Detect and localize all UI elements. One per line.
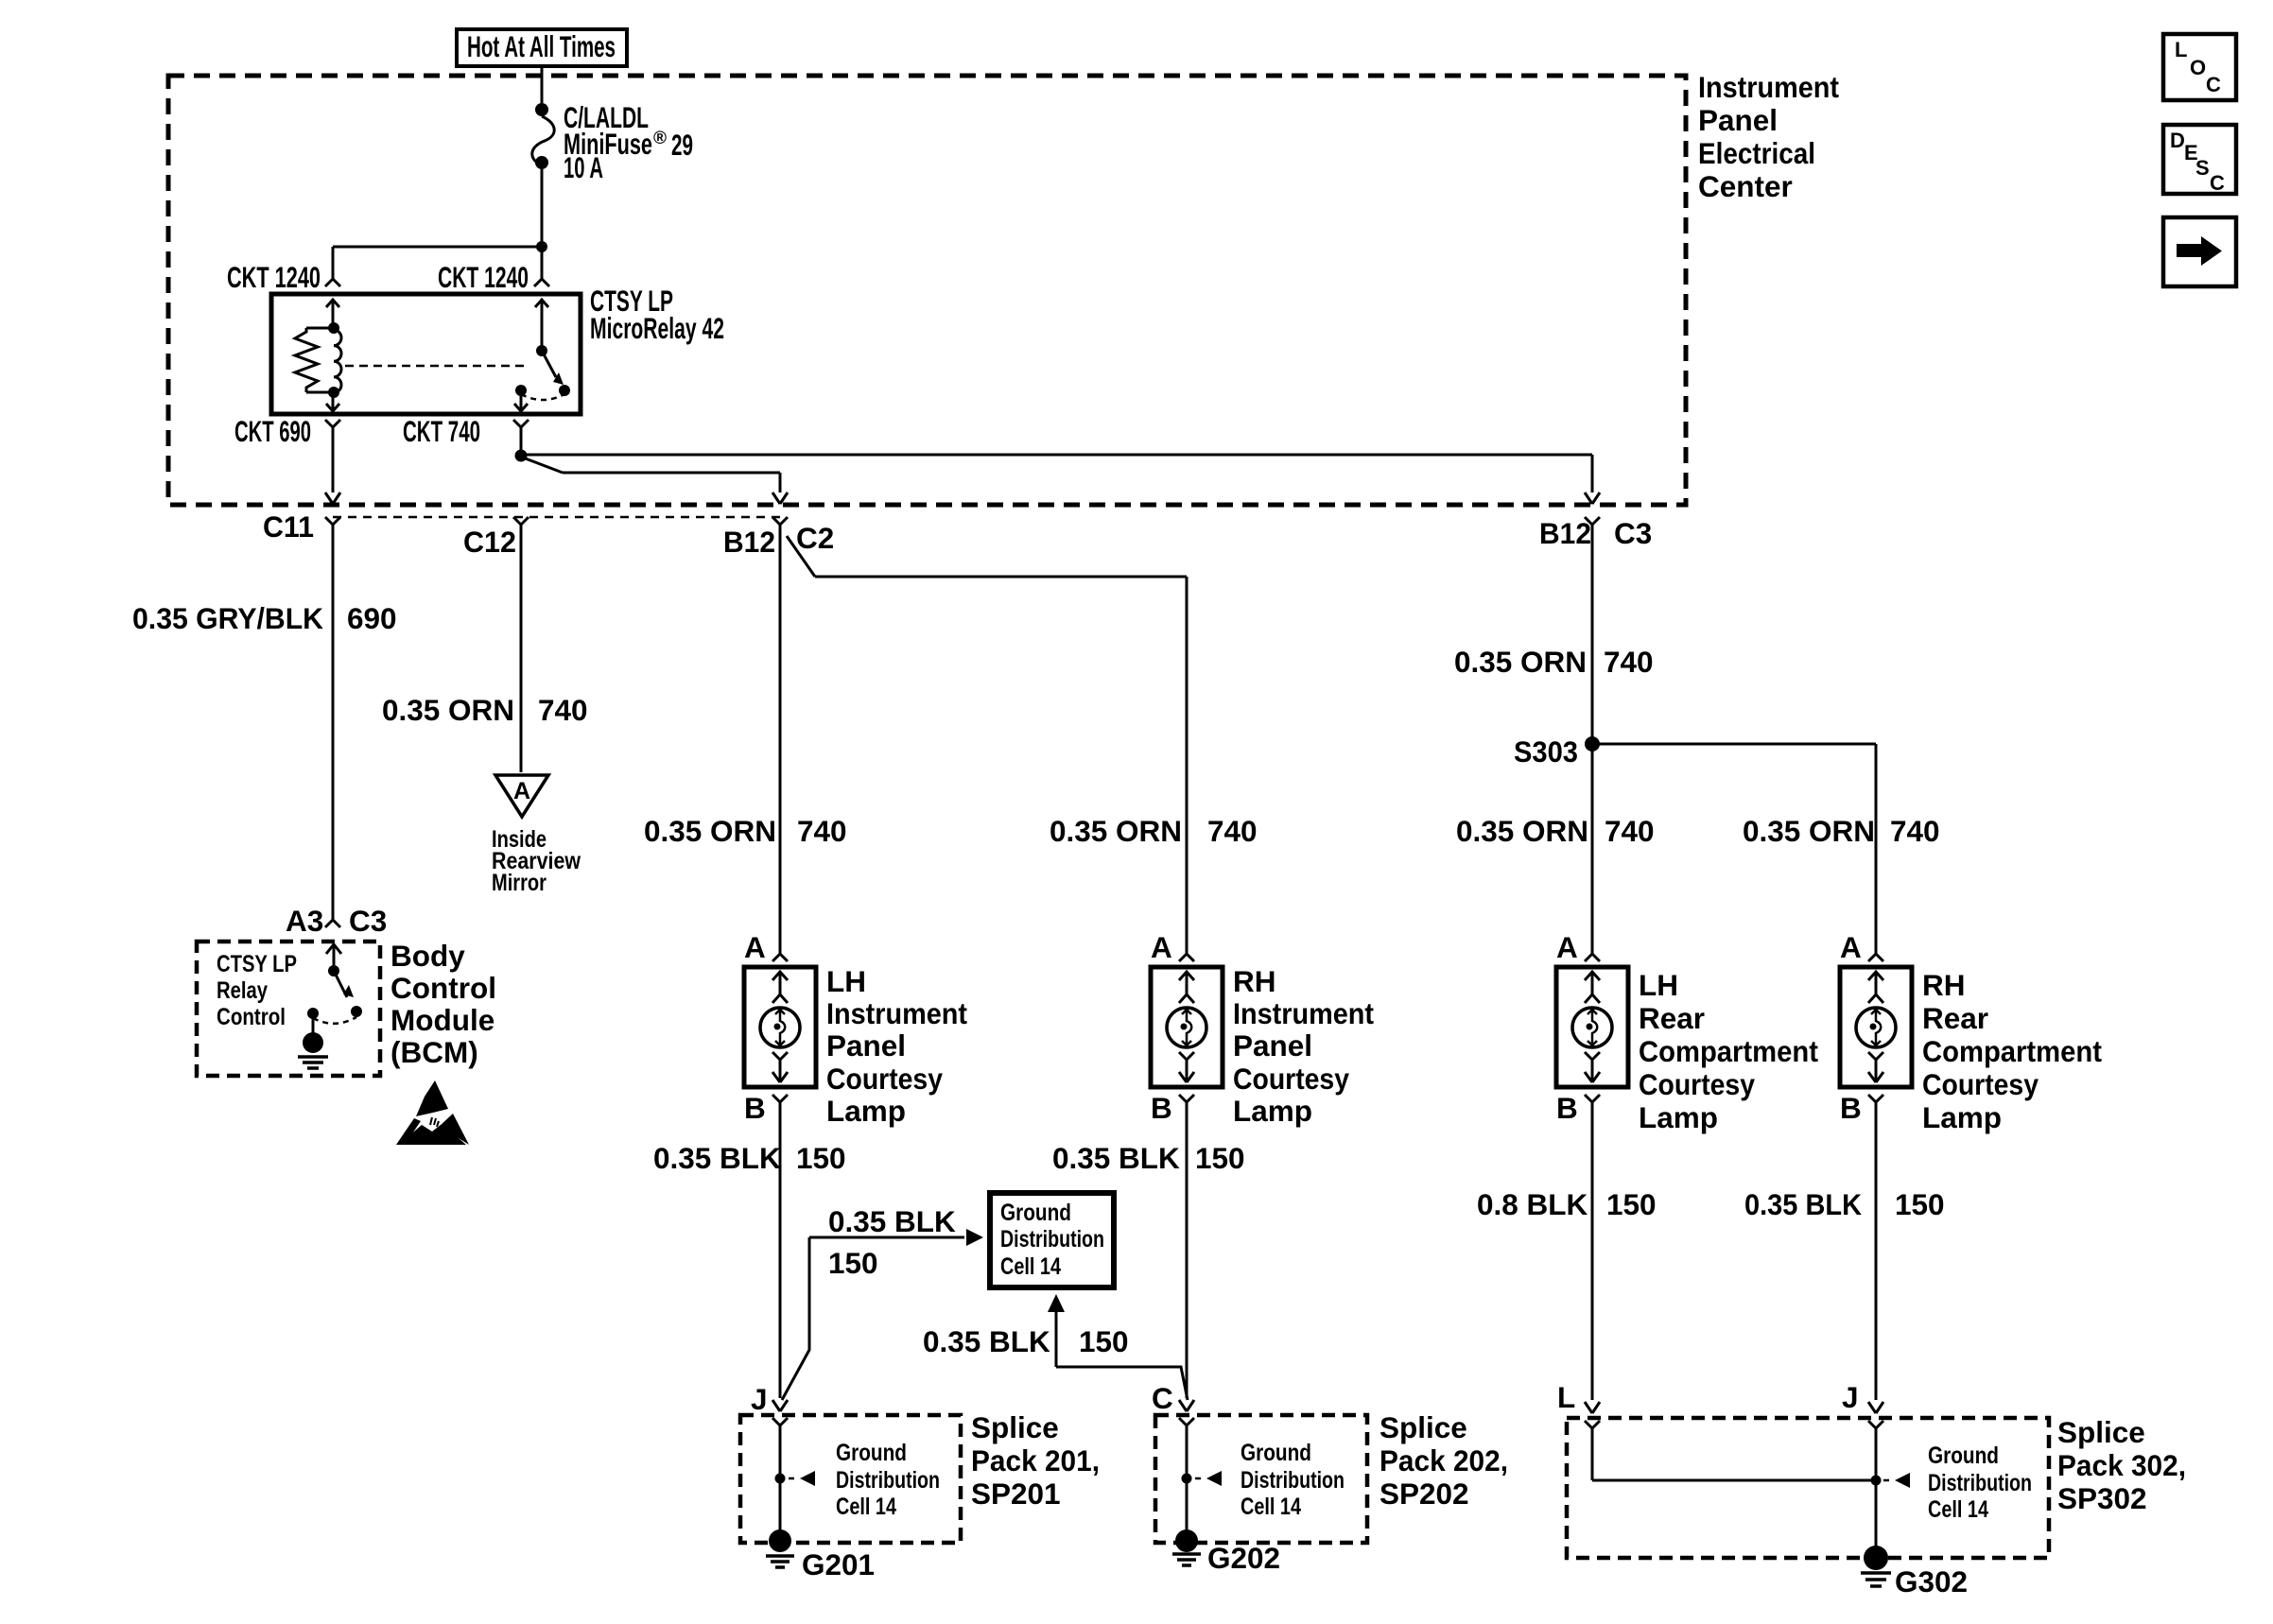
svg-text:CKT 1240: CKT 1240 (438, 260, 529, 294)
svg-text:Courtesy: Courtesy (1233, 1062, 1349, 1096)
svg-text:Electrical: Electrical (1698, 136, 1815, 170)
svg-text:Rear: Rear (1922, 1001, 1988, 1035)
svg-text:G201: G201 (802, 1547, 875, 1581)
svg-text:C3: C3 (349, 904, 387, 938)
svg-text:Cell 14: Cell 14 (1241, 1494, 1301, 1520)
svg-text:A: A (513, 778, 530, 804)
svg-text:Splice: Splice (1379, 1410, 1467, 1444)
svg-text:Cell 14: Cell 14 (836, 1494, 896, 1520)
svg-text:Control: Control (390, 971, 496, 1005)
svg-text:0.35 BLK: 0.35 BLK (653, 1141, 781, 1175)
svg-text:Instrument: Instrument (826, 996, 967, 1030)
svg-text:A: A (1556, 930, 1578, 964)
svg-text:B: B (1840, 1091, 1862, 1125)
svg-text:Cell 14: Cell 14 (1000, 1253, 1061, 1280)
svg-text:C11: C11 (263, 510, 314, 544)
svg-text:C3: C3 (1614, 516, 1652, 550)
svg-text:Pack 201,: Pack 201, (971, 1443, 1100, 1477)
svg-text:C: C (2206, 73, 2221, 96)
svg-text:A: A (744, 930, 766, 964)
svg-text:Compartment: Compartment (1639, 1034, 1818, 1068)
svg-text:Ground: Ground (1928, 1443, 1999, 1469)
svg-text:J: J (1842, 1380, 1859, 1414)
svg-text:Ground: Ground (1000, 1200, 1071, 1226)
svg-text:CKT 1240: CKT 1240 (227, 260, 321, 294)
svg-text:Instrument: Instrument (1698, 70, 1839, 104)
svg-text:29: 29 (671, 128, 693, 162)
svg-text:150: 150 (1895, 1187, 1945, 1221)
svg-text:0.35 GRY/BLK: 0.35 GRY/BLK (132, 601, 323, 635)
svg-text:G302: G302 (1895, 1564, 1968, 1598)
svg-text:CKT 690: CKT 690 (234, 414, 311, 448)
svg-text:C: C (2210, 171, 2225, 195)
svg-text:LH: LH (826, 964, 866, 998)
svg-text:740: 740 (1207, 814, 1258, 848)
svg-text:C12: C12 (463, 525, 516, 559)
svg-text:0.35 ORN: 0.35 ORN (382, 693, 514, 727)
svg-text:Control: Control (217, 1004, 286, 1030)
svg-text:0.35 BLK: 0.35 BLK (828, 1204, 956, 1238)
svg-text:Ground: Ground (836, 1440, 907, 1466)
svg-text:Center: Center (1698, 169, 1793, 203)
svg-text:C2: C2 (796, 521, 834, 555)
svg-text:740: 740 (1890, 814, 1940, 848)
svg-text:0.8 BLK: 0.8 BLK (1477, 1187, 1588, 1221)
svg-text:0.35 BLK: 0.35 BLK (1744, 1187, 1862, 1221)
svg-text:740: 740 (1605, 814, 1655, 848)
svg-text:S: S (2195, 156, 2210, 180)
svg-text:®: ® (653, 129, 667, 148)
svg-text:O: O (2190, 56, 2206, 79)
svg-text:Body: Body (390, 939, 465, 973)
svg-text:Instrument: Instrument (1233, 996, 1374, 1030)
svg-text:Ground: Ground (1241, 1440, 1311, 1466)
svg-text:Courtesy: Courtesy (1922, 1067, 2039, 1101)
svg-text:Relay: Relay (217, 977, 268, 1004)
svg-text:Panel: Panel (1233, 1028, 1312, 1063)
svg-text:LH: LH (1639, 968, 1678, 1002)
svg-text:Distribution: Distribution (836, 1467, 940, 1494)
svg-text:Courtesy: Courtesy (826, 1062, 943, 1096)
svg-text:B: B (744, 1091, 766, 1125)
svg-text:Courtesy: Courtesy (1639, 1067, 1755, 1101)
svg-text:0.35 BLK: 0.35 BLK (1052, 1141, 1180, 1175)
svg-text:SP201: SP201 (971, 1477, 1061, 1511)
svg-text:0.35 ORN: 0.35 ORN (644, 814, 776, 848)
svg-text:B: B (1556, 1091, 1578, 1125)
svg-text:0.35 ORN: 0.35 ORN (1456, 814, 1588, 848)
svg-text:Lamp: Lamp (826, 1094, 906, 1128)
svg-text:Lamp: Lamp (1639, 1100, 1718, 1134)
svg-text:A: A (1151, 930, 1172, 964)
svg-text:B: B (1151, 1091, 1172, 1125)
svg-text:Module: Module (390, 1003, 495, 1037)
svg-text:D: D (2170, 129, 2185, 152)
svg-text:Distribution: Distribution (1000, 1226, 1104, 1253)
svg-text:B12: B12 (723, 525, 775, 559)
svg-text:Splice: Splice (2057, 1415, 2145, 1449)
svg-text:0.35 ORN: 0.35 ORN (1454, 645, 1587, 679)
svg-text:CTSY LP: CTSY LP (217, 951, 297, 977)
svg-text:A: A (1840, 930, 1862, 964)
svg-text:740: 740 (538, 693, 588, 727)
svg-text:150: 150 (1606, 1187, 1657, 1221)
svg-text:0.35 ORN: 0.35 ORN (1050, 814, 1182, 848)
svg-text:A3: A3 (286, 904, 323, 938)
svg-text:Pack 302,: Pack 302, (2057, 1448, 2186, 1482)
svg-text:S303: S303 (1514, 734, 1578, 769)
svg-text:690: 690 (347, 601, 397, 635)
svg-text:MicroRelay 42: MicroRelay 42 (590, 311, 724, 345)
svg-text:Rear: Rear (1639, 1001, 1705, 1035)
svg-text:Lamp: Lamp (1922, 1100, 2002, 1134)
svg-text:Panel: Panel (1698, 103, 1778, 137)
svg-text:B12: B12 (1539, 516, 1591, 550)
svg-text:Distribution: Distribution (1241, 1467, 1345, 1494)
svg-text:CKT 740: CKT 740 (403, 414, 480, 448)
svg-text:RH: RH (1233, 964, 1276, 998)
svg-text:Cell 14: Cell 14 (1928, 1496, 1988, 1523)
svg-text:L: L (1557, 1380, 1575, 1414)
svg-text:RH: RH (1922, 968, 1966, 1002)
svg-text:150: 150 (1079, 1324, 1129, 1358)
svg-text:0.35 BLK: 0.35 BLK (923, 1324, 1050, 1358)
svg-text:Lamp: Lamp (1233, 1094, 1312, 1128)
svg-text:Splice: Splice (971, 1410, 1059, 1444)
svg-text:150: 150 (1195, 1141, 1245, 1175)
svg-text:Pack 202,: Pack 202, (1379, 1443, 1508, 1477)
svg-text:0.35 ORN: 0.35 ORN (1743, 814, 1875, 848)
svg-text:150: 150 (828, 1246, 878, 1280)
svg-text:150: 150 (796, 1141, 846, 1175)
svg-text:740: 740 (1604, 645, 1654, 679)
svg-text:C: C (1152, 1381, 1173, 1415)
svg-text:Compartment: Compartment (1922, 1034, 2102, 1068)
svg-text:Hot At All Times: Hot At All Times (467, 29, 616, 63)
svg-text:SP202: SP202 (1379, 1477, 1469, 1511)
svg-text:G202: G202 (1207, 1541, 1280, 1575)
svg-text:Distribution: Distribution (1928, 1470, 2032, 1496)
svg-text:(BCM): (BCM) (390, 1035, 478, 1069)
svg-text:J: J (751, 1382, 768, 1416)
svg-text:Panel: Panel (826, 1028, 906, 1063)
svg-text:L: L (2175, 38, 2187, 61)
svg-text:740: 740 (797, 814, 847, 848)
svg-text:10 A: 10 A (564, 150, 603, 184)
svg-text:SP302: SP302 (2057, 1481, 2147, 1515)
svg-text:Mirror: Mirror (492, 870, 547, 896)
